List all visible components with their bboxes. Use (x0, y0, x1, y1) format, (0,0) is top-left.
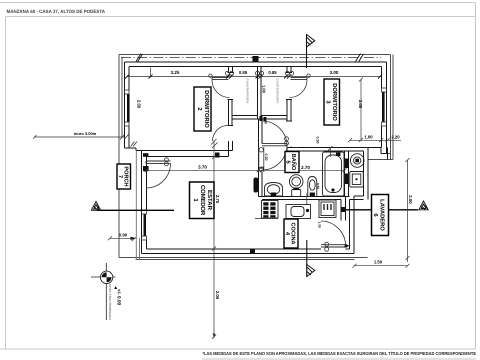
right wall lower (kitchen) (349, 200, 351, 250)
bedroom3 entry door arc (262, 121, 287, 146)
washing machine (350, 172, 364, 188)
svg-text:0.90: 0.90 (119, 233, 128, 238)
svg-text:NIVEL PISO TERMINADO: NIVEL PISO TERMINADO (108, 284, 112, 320)
kitchen back door leaf with arrow (321, 245, 347, 247)
wall poche black fills (143, 116, 348, 254)
top wall (125, 61, 387, 63)
svg-text:0.30: 0.30 (264, 117, 268, 124)
svg-text:0.85: 0.85 (239, 70, 248, 75)
dim 0.90 porch (108, 236, 136, 241)
room label estar comedor (190, 182, 215, 219)
svg-text:2.50: 2.50 (137, 100, 142, 109)
dim 2.00 bedroom3 line (359, 78, 363, 143)
dimension line top (127, 68, 380, 77)
closet2 door arc (290, 80, 308, 98)
bedroom2 entry door arc (213, 126, 229, 142)
svg-text:ESTAR: ESTAR (206, 190, 213, 211)
bath sink (265, 183, 283, 197)
centerline survey tick right (356, 54, 364, 63)
front door arc (146, 164, 171, 189)
svg-text:2.00: 2.00 (358, 100, 363, 109)
muro leader line (33, 135, 129, 140)
bath door arc (262, 145, 287, 170)
bedroom3 right wall (381, 67, 383, 89)
living top wall (136, 150, 233, 152)
kitchen sink (286, 205, 311, 219)
bath door knob circles (285, 137, 289, 145)
room label porch (117, 164, 131, 189)
dim 1.50 bottom right (353, 264, 410, 268)
section flag B bottom (307, 265, 315, 277)
section line A left (97, 209, 174, 211)
closet partition center (257, 67, 259, 120)
closet2 door leaf horizontal (291, 78, 308, 80)
kitchen counter line (255, 218, 278, 220)
svg-text:DORMITORIO: DORMITORIO (331, 83, 338, 121)
room label dormitorio3 (324, 79, 340, 125)
section line B pole top (306, 35, 308, 68)
porch step tick (131, 142, 138, 147)
dim line 3.70/2.70 (145, 168, 347, 172)
svg-text:+/- 0.00: +/- 0.00 (116, 289, 122, 306)
dim line 1.00/2.20 top right (348, 138, 401, 142)
centerline survey tick left (136, 54, 143, 63)
svg-text:muro 3.00m: muro 3.00m (74, 131, 97, 136)
svg-text:2.05: 2.05 (215, 291, 220, 300)
svg-text:1.00: 1.00 (364, 134, 373, 139)
closet1 door arc (212, 80, 230, 98)
svg-text:MANZANA 60 - CASA 37, ALTOS DE: MANZANA 60 - CASA 37, ALTOS DE PODESTA (7, 9, 106, 14)
kitchen back door arc (321, 221, 346, 246)
kitchen back door knob circles (325, 242, 329, 251)
kitchen stove (262, 201, 279, 219)
chimney black square on top wall (253, 56, 259, 63)
dim 2.00 right vertical (406, 158, 410, 262)
bidet (308, 177, 317, 197)
compass north symbol (91, 263, 117, 320)
closet1 leaf end circle (209, 74, 212, 77)
porch slab edge lines (136, 151, 139, 260)
svg-text:0.30: 0.30 (316, 183, 320, 189)
dimension ticks top (125, 75, 382, 79)
svg-text:2.75: 2.75 (215, 195, 220, 204)
room label cocina (284, 219, 298, 248)
closet1 door leaf horizontal (212, 78, 229, 80)
kitchen sink faucet pipe (306, 194, 308, 206)
section line A right (345, 209, 418, 211)
footer faint second line (202, 358, 476, 360)
closet2 door knob circles (285, 71, 293, 75)
wall bedroom2 / hall-closet (228, 67, 230, 73)
svg-text:2: 2 (196, 107, 203, 110)
svg-text:5: 5 (285, 160, 291, 163)
closet bottom wall (233, 115, 258, 117)
bath/bed3 south wall (287, 147, 381, 149)
room label banio (285, 152, 300, 173)
svg-text:1.50: 1.50 (374, 260, 383, 265)
laundry tub circle (350, 154, 364, 168)
exterior walls (125, 62, 388, 254)
svg-text:0.55: 0.55 (258, 166, 264, 170)
svg-text:0.85: 0.85 (268, 70, 277, 75)
closet2 / bedroom3 wall (286, 67, 288, 73)
svg-text:1.00: 1.00 (262, 85, 267, 94)
svg-text:2.20: 2.20 (391, 134, 400, 139)
window living left (142, 210, 147, 240)
svg-text:0.30: 0.30 (316, 137, 320, 144)
porch step (125, 147, 137, 149)
section triangle A left (91, 202, 100, 211)
front door knob circles (164, 158, 168, 166)
closet2 leaf end circle (307, 74, 310, 77)
bath / kitchen wall (259, 196, 350, 198)
laundry right wall (363, 151, 365, 196)
svg-text:GUARDARROPA: GUARDARROPA (275, 78, 279, 103)
section line B pole bottom (306, 240, 308, 277)
toilet (289, 175, 303, 197)
room label dormitorio2 (194, 87, 211, 131)
bottom wall (147, 248, 322, 250)
left wall upper (bedroom2) (124, 62, 126, 148)
closet1 door knob circles (225, 71, 233, 75)
hall right / bath-kitchen left wall (258, 119, 260, 197)
interior walls (228, 67, 234, 157)
lot boundary (119, 55, 393, 260)
bath top extension tick (328, 146, 333, 157)
living left wall (141, 151, 143, 254)
svg-text:LAVADERO: LAVADERO (379, 199, 386, 231)
svg-text:2.70: 2.70 (301, 165, 310, 170)
svg-text:2.00: 2.00 (408, 195, 413, 204)
svg-text:3.00: 3.00 (330, 70, 339, 75)
svg-text:7: 7 (117, 175, 123, 178)
section flag B top (307, 35, 315, 48)
window bedroom3 right (382, 88, 387, 126)
room label lavadero (372, 195, 389, 236)
section triangle A right (419, 201, 428, 210)
dim 2.75 vertical line (211, 139, 218, 339)
pipe chase with end circles (259, 147, 264, 172)
centerline dash-dot (121, 57, 381, 59)
kitchen cabinet right (319, 200, 336, 218)
svg-text:3.70: 3.70 (198, 165, 207, 170)
svg-text:*LAS MEDIDAS DE ESTE PLANO SON: *LAS MEDIDAS DE ESTE PLANO SON APROXIMAD… (203, 351, 477, 356)
svg-text:COMEDOR: COMEDOR (199, 185, 206, 216)
svg-text:3.25: 3.25 (171, 70, 180, 75)
svg-text:GUARDARROPA: GUARDARROPA (245, 78, 249, 103)
window left bedroom2 (125, 90, 130, 126)
bathtub (323, 152, 345, 196)
svg-text:DORMITORIO: DORMITORIO (203, 90, 210, 128)
bath / laundry wall (344, 151, 346, 196)
bath door leaf (262, 144, 287, 146)
svg-text:0.30: 0.30 (264, 154, 268, 161)
svg-text:1.35: 1.35 (317, 221, 321, 227)
front door leaf (146, 161, 171, 163)
kitchen right wall (340, 200, 342, 221)
